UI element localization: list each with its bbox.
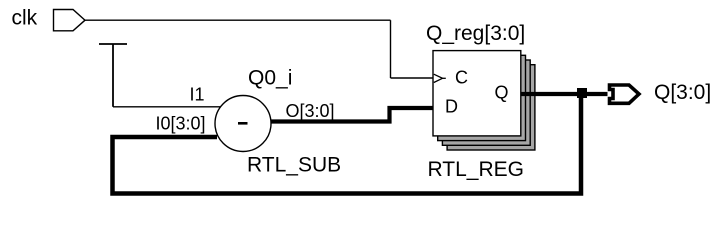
wire O output to D pin [271,108,434,122]
svg-text:Q[3:0]: Q[3:0] [654,81,711,104]
port label clk [12,7,38,30]
svg-text:O[3:0]: O[3:0] [286,101,335,121]
svg-text:C: C [455,68,468,88]
register stack shadow 1 [438,55,526,140]
svg-text:I1: I1 [190,85,205,105]
wire clk horizontal [85,19,391,21]
pin label C [455,68,468,88]
instance label RTL_SUB [247,154,341,177]
svg-text:D: D [445,97,458,117]
svg-text:I0[3:0]: I0[3:0] [156,114,206,134]
wire clk vertical down [390,20,392,78]
svg-text:RTL_REG: RTL_REG [428,158,524,181]
pin label Q [495,83,509,103]
register Q_reg main body [433,51,521,136]
svg-text:Q_reg[3:0]: Q_reg[3:0] [426,22,525,45]
wire power to I1 pin [113,106,221,108]
wire feedback bottom [113,94,582,194]
svg-text:RTL_SUB: RTL_SUB [247,154,341,177]
pin label D [445,97,458,117]
wire Q output [521,92,608,96]
pin label I0[3:0] [156,114,206,134]
wire clk to C pin [391,77,434,79]
power symbol (constant 1) [99,44,127,107]
input port clk [54,10,86,31]
subtractor Q0_i [215,96,271,152]
register stack shadow 2 [442,60,530,145]
instance label Q_reg[3:0] [426,22,525,45]
junction dot [577,88,587,98]
svg-text:clk: clk [12,7,38,30]
clock pin triangle [434,74,446,82]
svg-text:Q0_i: Q0_i [248,67,292,90]
pin label I1 [190,85,205,105]
pin label O[3:0] [286,101,335,121]
register stack shadow 3 [447,65,535,150]
output port Q[3:0] [610,85,640,103]
instance label Q0_i [248,67,292,90]
svg-text:Q: Q [495,83,509,103]
instance label RTL_REG [428,158,524,181]
port label Q[3:0] [654,81,711,104]
